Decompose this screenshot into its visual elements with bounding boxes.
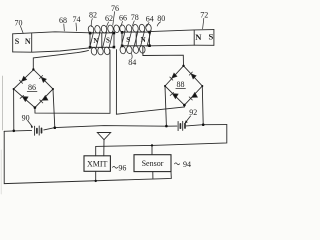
magnet 70 letters S N bbox=[15, 37, 31, 46]
svg-text:Sensor: Sensor bbox=[142, 159, 164, 168]
left edge scan smudge bbox=[1, 76, 3, 130]
magnet 72 letters N S bbox=[195, 31, 213, 42]
magnet 64 corner dots bbox=[121, 31, 151, 47]
svg-text:72: 72 bbox=[200, 10, 208, 19]
svg-text:84: 84 bbox=[128, 58, 136, 67]
battery 92 bbox=[178, 121, 185, 130]
svg-text:78: 78 bbox=[131, 13, 139, 22]
battery row wire bbox=[4, 125, 227, 132]
coil left group bottom loops bbox=[91, 47, 98, 55]
magnet 62 corner dots bbox=[89, 32, 115, 49]
magnet 64 box S|N bbox=[122, 32, 150, 46]
label 96 + tilde bbox=[113, 166, 118, 168]
svg-text:70: 70 bbox=[15, 18, 23, 27]
coil right group bottom loops bbox=[119, 46, 126, 54]
label 86 bbox=[27, 83, 37, 92]
magnet 70 bar (left bar outline) bbox=[13, 32, 90, 52]
coil right group winding diagonals bbox=[121, 32, 125, 48]
wire: antenna feed to XMIT bbox=[103, 140, 105, 156]
svg-text:66: 66 bbox=[119, 14, 127, 23]
leader 66 bbox=[121, 21, 123, 26]
svg-text:88: 88 bbox=[177, 80, 185, 89]
battery 90 bbox=[35, 126, 42, 135]
svg-text:94: 94 bbox=[183, 160, 191, 169]
svg-text:S: S bbox=[209, 31, 214, 41]
wire: bridge 88 right vertex down bbox=[201, 86, 204, 125]
core bar right section bbox=[150, 30, 214, 46]
coil 84 right group top loops bbox=[119, 24, 152, 55]
bridge 86 diamond bbox=[14, 70, 53, 108]
wire: coil left lead to bridge 86 top bbox=[33, 50, 88, 69]
svg-text:80: 80 bbox=[157, 14, 165, 23]
wire: bridge 86 bottom to coil (wire A) bbox=[35, 50, 110, 113]
leader 62 bbox=[106, 22, 108, 27]
leader lines for top labels bbox=[21, 12, 204, 59]
wire: bridge 86 left vertex down bbox=[13, 89, 15, 131]
bridge 86 diodes bbox=[20, 76, 48, 103]
svg-text:82: 82 bbox=[89, 10, 97, 19]
svg-text:64: 64 bbox=[146, 15, 154, 24]
wire: bridge 88 left vertex down bbox=[165, 86, 166, 126]
label 94 + tilde bbox=[175, 163, 180, 165]
svg-text:N: N bbox=[195, 32, 202, 42]
wire: bridge 88 bottom to coil (wire B) bbox=[116, 50, 184, 115]
svg-text:74: 74 bbox=[73, 15, 81, 24]
leader 82 bbox=[91, 19, 92, 27]
leader 74 bbox=[75, 23, 78, 31]
bridge 88 diodes bbox=[170, 72, 198, 100]
leader 78 bbox=[132, 21, 134, 26]
wire: Sensor bottom to bus bbox=[152, 172, 154, 179]
antenna bbox=[97, 133, 110, 140]
coil left group winding diagonals bbox=[90, 32, 94, 48]
bridge 88 diamond bbox=[165, 66, 202, 105]
leader 80 bbox=[157, 22, 160, 26]
wire: XMIT bottom to bus bbox=[95, 171, 97, 181]
wire: bridge 88 top lead to coil bbox=[143, 46, 184, 65]
svg-text:68: 68 bbox=[59, 16, 67, 25]
svg-text:N: N bbox=[25, 37, 31, 46]
svg-text:96: 96 bbox=[118, 163, 126, 172]
leader 68 bbox=[63, 24, 66, 31]
coil 82 left group top loops bbox=[88, 25, 120, 56]
wire: rail stub to sensor top bbox=[151, 145, 153, 154]
svg-text:86: 86 bbox=[28, 83, 36, 92]
magnet 62 box N|S bbox=[90, 33, 114, 47]
leader 84 bbox=[130, 53, 133, 59]
wire: bridge 86 right vertex down bbox=[53, 89, 55, 128]
Sensor box 94 bbox=[134, 155, 171, 172]
reference labels top row bbox=[15, 4, 209, 67]
supply rail: row right corner down and left to XMIT bbox=[96, 125, 227, 156]
leader 70 bbox=[21, 26, 24, 33]
svg-text:XMIT: XMIT bbox=[87, 159, 108, 168]
leader 72 bbox=[203, 18, 204, 28]
label 88 bbox=[176, 80, 186, 89]
svg-text:S: S bbox=[15, 37, 20, 46]
label 92 + leader bbox=[189, 108, 197, 117]
svg-text:62: 62 bbox=[105, 14, 113, 23]
XMIT box 96 bbox=[84, 156, 110, 172]
label 90 + leader bbox=[22, 113, 30, 122]
leader 76 bbox=[113, 12, 115, 26]
leader 64 bbox=[147, 22, 149, 26]
svg-text:S: S bbox=[106, 37, 110, 45]
svg-text:76: 76 bbox=[111, 4, 119, 13]
bus rectangle: left edge + bottom edge bbox=[4, 131, 171, 183]
